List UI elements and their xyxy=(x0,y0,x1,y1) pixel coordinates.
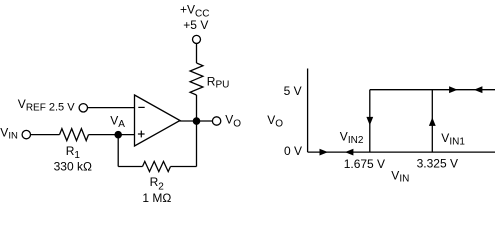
svg-text:+5 V: +5 V xyxy=(183,18,208,32)
svg-text:0 V: 0 V xyxy=(284,144,302,158)
svg-text:1 MΩ: 1 MΩ xyxy=(142,191,171,205)
svg-text:330 kΩ: 330 kΩ xyxy=(54,159,92,173)
svg-text:1.675 V: 1.675 V xyxy=(344,157,385,171)
svg-text:5 V: 5 V xyxy=(284,84,302,98)
svg-text:3.325 V: 3.325 V xyxy=(417,157,458,171)
